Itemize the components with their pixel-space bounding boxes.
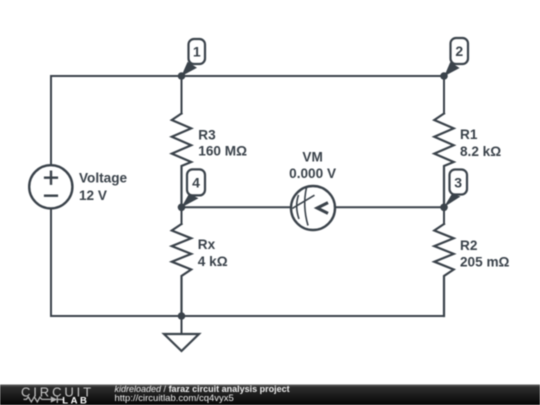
svg-text:R1: R1 [460, 127, 478, 142]
svg-text:Voltage: Voltage [79, 171, 128, 186]
svg-text:12 V: 12 V [79, 188, 107, 203]
svg-text:LAB: LAB [62, 395, 89, 405]
svg-text:Rx: Rx [198, 237, 216, 252]
svg-text:160 MΩ: 160 MΩ [198, 143, 247, 158]
svg-text:8.2 kΩ: 8.2 kΩ [460, 144, 501, 159]
svg-text:http://circuitlab.com/cq4vyx5: http://circuitlab.com/cq4vyx5 [115, 393, 234, 404]
svg-text:3: 3 [454, 175, 462, 191]
svg-text:VM: VM [302, 150, 322, 165]
svg-text:1: 1 [193, 44, 201, 60]
svg-text:4 kΩ: 4 kΩ [198, 254, 228, 269]
svg-text:4: 4 [192, 175, 200, 191]
svg-text:2: 2 [455, 43, 463, 59]
svg-text:0.000 V: 0.000 V [289, 166, 336, 181]
svg-text:R3: R3 [198, 127, 216, 142]
svg-text:205 mΩ: 205 mΩ [460, 255, 510, 270]
svg-text:R2: R2 [460, 238, 478, 253]
